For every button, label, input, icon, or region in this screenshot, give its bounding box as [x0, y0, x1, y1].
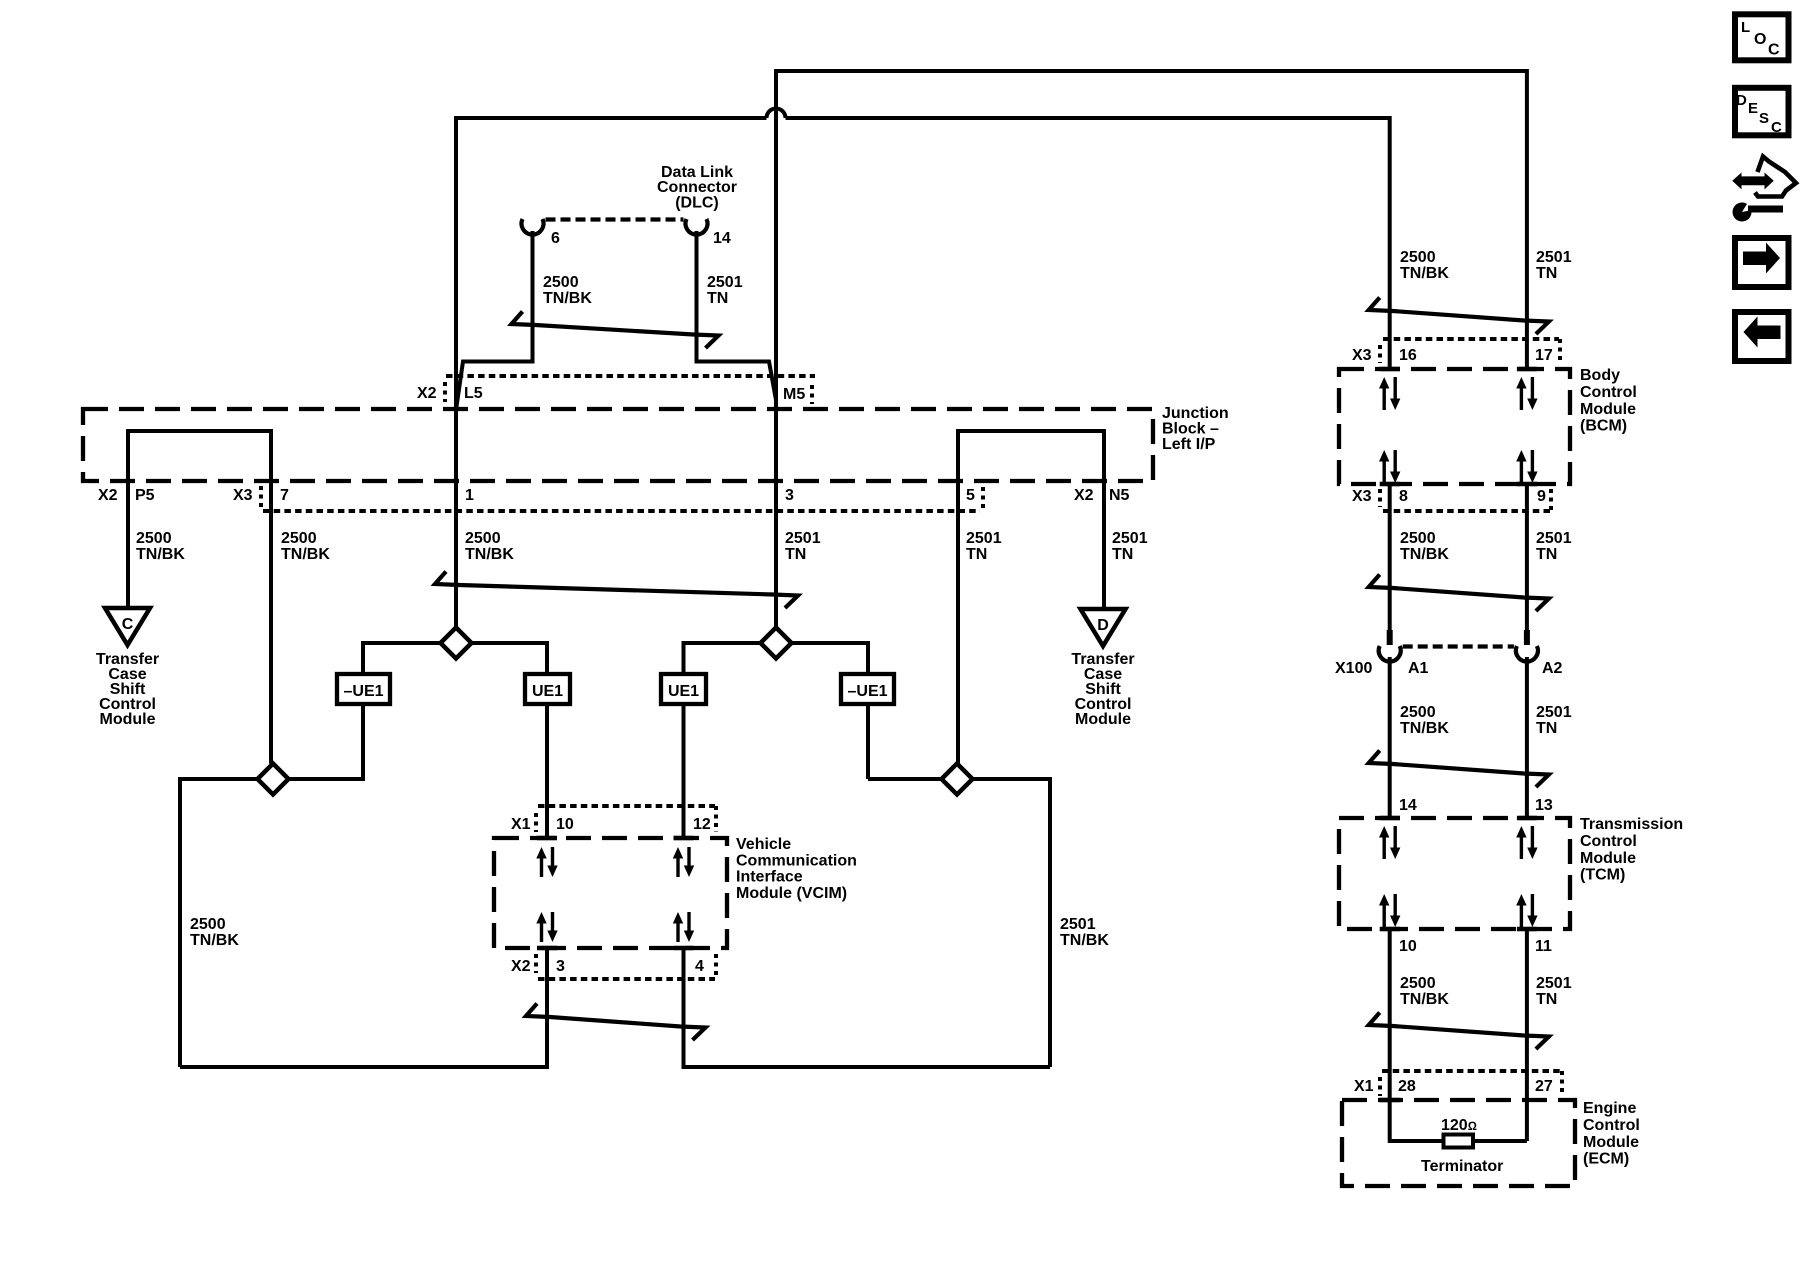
VCIM arrows pin 10	[540, 855, 543, 877]
net label UE1 (right)	[661, 674, 706, 704]
wire BCM pin 17 through pin row	[1525, 339, 1529, 369]
ECM X1 pin row dotted line	[1382, 1069, 1561, 1073]
svg-text:Interface: Interface	[736, 869, 803, 886]
svg-text:–UE1: –UE1	[343, 683, 383, 700]
wire 2501 BCM pin 9 to X100 A2	[1525, 484, 1529, 645]
VCIM X1 separator right	[714, 806, 718, 832]
junction block X2/M5 separator	[810, 385, 814, 404]
DLC pin 14 terminal cup	[686, 219, 708, 235]
svg-text:Control: Control	[1583, 1117, 1640, 1134]
BCM pin 16 T terminal	[1380, 367, 1400, 372]
svg-text:X2: X2	[98, 487, 118, 504]
svg-text:TN/BK: TN/BK	[543, 290, 592, 307]
svg-text:2501: 2501	[707, 274, 743, 291]
svg-text:7: 7	[280, 487, 289, 504]
svg-text:TN: TN	[966, 546, 987, 563]
svg-text:Module: Module	[1583, 1134, 1639, 1151]
hop: line B crosses M5 wire (no connection)	[767, 109, 786, 119]
svg-text:C: C	[1771, 119, 1782, 136]
svg-text:C: C	[1768, 42, 1780, 59]
ECM X1 separator right	[1560, 1071, 1564, 1096]
svg-text:Terminator: Terminator	[1421, 1158, 1503, 1175]
wire 2501 X100 A2 to TCM 13	[1525, 657, 1529, 818]
svg-text:11: 11	[1535, 938, 1552, 955]
svg-text:X100: X100	[1335, 660, 1372, 677]
svg-text:X2: X2	[417, 385, 437, 402]
svg-text:X2: X2	[511, 958, 531, 975]
wire pin 5 down to lower splice	[956, 481, 960, 764]
svg-text:17: 17	[1535, 347, 1553, 364]
VCIM pin 12 T terminal	[674, 836, 694, 841]
twisted pair symbol (above ECM)	[1369, 1013, 1549, 1050]
wire 2500 TCM 10 to ECM 28	[1388, 929, 1392, 1100]
svg-text:Body: Body	[1580, 367, 1620, 384]
wire 2500 TN/BK from DLC pin 6 to junction block L5	[456, 231, 533, 410]
svg-text:14: 14	[713, 230, 731, 247]
svg-text:16: 16	[1399, 347, 1417, 364]
svg-text:2501: 2501	[1112, 530, 1148, 547]
svg-text:10: 10	[556, 816, 574, 833]
junction block X3 separator	[259, 486, 263, 508]
X100 A1 male blade	[1387, 630, 1393, 645]
svg-text:S: S	[1759, 110, 1769, 127]
svg-text:TN/BK: TN/BK	[136, 546, 185, 563]
VCIM X1 separator left	[534, 813, 538, 832]
svg-text:A1: A1	[1408, 660, 1429, 677]
twisted pair symbol (pins 1 and 3)	[435, 572, 798, 609]
wire 2500 TN/BK line B right segment to BCM pin 16	[786, 118, 1390, 339]
VCIM arrows pin 4	[676, 920, 679, 942]
svg-text:2501: 2501	[966, 530, 1002, 547]
svg-text:E: E	[1748, 100, 1758, 117]
svg-text:X1: X1	[511, 816, 531, 833]
TCM pin 13 T terminal	[1517, 816, 1537, 821]
svg-text:O: O	[1754, 31, 1766, 48]
TCM pin 11 T terminal	[1517, 927, 1537, 932]
icon pointer outline stroke	[1755, 157, 1796, 197]
ECM module box	[1342, 1100, 1575, 1186]
TCM arrows 14	[1382, 834, 1385, 859]
svg-text:9: 9	[1537, 488, 1546, 505]
BCM pin 8 T terminal	[1380, 482, 1400, 487]
svg-text:P5: P5	[135, 487, 155, 504]
wire -UE1(left) down to splice arm	[361, 704, 365, 781]
DLC pin 6 terminal cup	[522, 219, 544, 235]
svg-text:10: 10	[1399, 938, 1417, 955]
svg-text:Engine: Engine	[1583, 1100, 1636, 1117]
ECM X1 separator left	[1378, 1077, 1382, 1096]
wire splice to -UE1 (left)	[363, 643, 441, 674]
svg-text:D: D	[1097, 617, 1109, 634]
BCM arrows 8	[1382, 458, 1385, 483]
twisted pair symbol (above TCM)	[1369, 751, 1549, 788]
wire UE1(right) to VCIM pin 12	[682, 704, 686, 838]
svg-text:Module (VCIM): Module (VCIM)	[736, 885, 847, 902]
BCM X3 bottom pin row dotted line	[1383, 509, 1550, 513]
icon LOC box	[1735, 14, 1789, 60]
svg-text:D: D	[1736, 92, 1747, 109]
icon pointer double arrow	[1733, 174, 1773, 189]
BCM X3 bottom separator left	[1378, 489, 1382, 507]
svg-text:TN/BK: TN/BK	[281, 546, 330, 563]
wire terminator resistor to ECM 27	[1473, 1139, 1527, 1143]
svg-text:TN: TN	[1536, 546, 1557, 563]
svg-text:M5: M5	[783, 386, 805, 403]
BCM X3 top separator left	[1378, 345, 1382, 363]
svg-text:(TCM): (TCM)	[1580, 867, 1625, 884]
svg-text:Transmission: Transmission	[1580, 816, 1683, 833]
BCM X3 top separator right	[1558, 339, 1562, 363]
TCM arrows 10	[1382, 902, 1385, 927]
BCM module box	[1339, 369, 1570, 484]
VCIM X2 separator right	[714, 954, 718, 979]
svg-text:X2: X2	[1074, 487, 1094, 504]
icon back arrow	[1744, 317, 1781, 348]
svg-text:TN/BK: TN/BK	[465, 546, 514, 563]
svg-text:X1: X1	[1354, 1078, 1374, 1095]
svg-text:2501: 2501	[1536, 975, 1572, 992]
svg-text:–UE1: –UE1	[847, 683, 887, 700]
svg-text:TN: TN	[707, 290, 728, 307]
wire 2501 TN junction N5 to triangle D	[1102, 431, 1106, 609]
svg-text:12: 12	[693, 816, 711, 833]
splice diamond (2501, pin 3)	[761, 628, 792, 659]
svg-text:3: 3	[785, 487, 794, 504]
svg-text:120Ω: 120Ω	[1441, 1117, 1477, 1134]
svg-text:UE1: UE1	[532, 683, 563, 700]
junction block bottom pin row dotted line	[263, 509, 980, 513]
wire 2500 TN/BK junction P5 to triangle C	[126, 431, 130, 608]
svg-text:2501: 2501	[1060, 916, 1096, 933]
wire 2501 TN from DLC pin 14 to junction block M5	[697, 231, 777, 400]
svg-text:13: 13	[1535, 797, 1553, 814]
svg-text:TN/BK: TN/BK	[1400, 720, 1449, 737]
svg-text:2500: 2500	[543, 274, 579, 291]
junction block top pin row X2 dotted line	[446, 374, 815, 378]
svg-text:TN/BK: TN/BK	[1060, 932, 1109, 949]
VCIM module box	[494, 838, 727, 948]
svg-text:6: 6	[551, 230, 560, 247]
svg-text:2501: 2501	[785, 530, 821, 547]
svg-text:2501: 2501	[1536, 249, 1572, 266]
svg-text:Junction: Junction	[1162, 405, 1229, 422]
svg-text:TN: TN	[1536, 720, 1557, 737]
svg-text:X3: X3	[233, 487, 253, 504]
svg-text:14: 14	[1399, 797, 1417, 814]
BCM arrows 17	[1520, 385, 1523, 410]
svg-text:TN/BK: TN/BK	[1400, 991, 1449, 1008]
wire 2501 TCM 11 to ECM 27	[1525, 929, 1529, 1141]
TCM pin 10 T terminal	[1380, 927, 1400, 932]
svg-text:TN/BK: TN/BK	[190, 932, 239, 949]
svg-text:28: 28	[1398, 1078, 1416, 1095]
svg-text:Module: Module	[1580, 850, 1636, 867]
svg-text:2500: 2500	[190, 916, 226, 933]
svg-text:2500: 2500	[1400, 704, 1436, 721]
svg-text:Module: Module	[100, 711, 156, 728]
svg-text:(ECM): (ECM)	[1583, 1151, 1629, 1168]
svg-text:2500: 2500	[1400, 249, 1436, 266]
BCM arrows 16	[1382, 385, 1385, 410]
wire 2500 TN/BK top run: L5 vertical up to line B across to BCM pin 16 (left segment)	[456, 118, 767, 628]
net label UE1 (left)	[525, 674, 570, 704]
VCIM X2 separator left	[534, 954, 538, 973]
terminator resistor 120 ohm	[1444, 1135, 1474, 1148]
VCIM arrows pin 3	[540, 920, 543, 942]
VCIM pin 3 T terminal	[537, 946, 557, 951]
wire lower splice right arm (-UE1 join)	[289, 777, 364, 781]
wire 2500 BCM pin 8 to X100 A1	[1388, 484, 1392, 645]
junction block pin 5 separator	[981, 487, 985, 510]
icon back arrow box	[1735, 312, 1789, 361]
svg-text:X3: X3	[1352, 347, 1372, 364]
net label -UE1 (right)	[841, 674, 894, 704]
twisted pair symbol (below BCM)	[1369, 575, 1549, 612]
wire -UE1(right) down to splice	[866, 704, 870, 779]
icon forward arrow	[1743, 243, 1780, 274]
X100 A1 terminal cup	[1379, 646, 1401, 662]
svg-text:TN: TN	[1536, 991, 1557, 1008]
svg-text:A2: A2	[1542, 660, 1563, 677]
wire 2501 TN/BK bottom rail to VCIM pin 4	[684, 948, 1051, 1067]
off-page triangle D	[1081, 609, 1126, 646]
X100 A2 terminal cup	[1516, 646, 1538, 662]
BCM pin 9 T terminal	[1517, 482, 1537, 487]
VCIM X2 pin row dotted line	[538, 977, 715, 981]
svg-text:Vehicle: Vehicle	[736, 836, 791, 853]
svg-text:2500: 2500	[281, 530, 317, 547]
svg-text:2500: 2500	[136, 530, 172, 547]
svg-text:Module: Module	[1580, 401, 1636, 418]
wire splice to -UE1 (right)	[792, 643, 869, 674]
TCM arrows 13	[1520, 834, 1523, 859]
icon DESC box	[1735, 88, 1789, 136]
junction block internal wire 5 to N5	[958, 431, 1104, 481]
BCM X3 top pin row dotted line	[1383, 337, 1559, 341]
off-page triangle C	[105, 608, 150, 645]
ECM pin 28 T terminal	[1380, 1098, 1400, 1103]
svg-text:Control: Control	[1580, 384, 1637, 401]
X100 connector dashed line	[1403, 644, 1514, 648]
twisted pair symbol (DLC wires)	[512, 312, 719, 349]
TCM arrows 11	[1520, 902, 1523, 927]
junction block - Left I/P module box	[83, 409, 1153, 481]
wire lower splice right arm to rail	[973, 779, 1051, 1067]
svg-text:4: 4	[695, 958, 704, 975]
svg-text:C: C	[122, 616, 134, 633]
icon forward arrow box	[1735, 238, 1789, 287]
svg-text:Communication: Communication	[736, 852, 857, 869]
wire splice to UE1 (right pair)	[684, 643, 761, 674]
TCM pin 14 T terminal	[1380, 816, 1400, 821]
svg-text:8: 8	[1399, 488, 1408, 505]
svg-text:Control: Control	[1580, 833, 1637, 850]
svg-text:N5: N5	[1109, 487, 1130, 504]
svg-text:5: 5	[966, 487, 975, 504]
wire lower splice left arm (-UE1 right join)	[868, 777, 942, 781]
svg-text:TN: TN	[1112, 546, 1133, 563]
splice diamond (2501 lower)	[942, 764, 973, 795]
net label -UE1 (left)	[337, 674, 390, 704]
DLC connector dashed line	[546, 217, 684, 221]
svg-text:3: 3	[556, 958, 565, 975]
wire 2501 TN top run: M5 vertical up to line A across to BCM pin 17	[776, 71, 1527, 628]
wire lower splice left arm to rail	[180, 779, 258, 1067]
wire 2500 TN/BK bottom rail to VCIM pin 3	[180, 948, 547, 1067]
svg-text:2500: 2500	[1400, 530, 1436, 547]
VCIM X1 pin row dotted line	[538, 804, 715, 808]
svg-text:1: 1	[465, 487, 474, 504]
svg-text:TN/BK: TN/BK	[1400, 546, 1449, 563]
X100 A2 male blade	[1524, 630, 1530, 645]
junction block internal wire P5 to 7	[128, 431, 271, 481]
wire splice to UE1 (left pair)	[472, 643, 548, 674]
BCM pin 17 T terminal	[1517, 367, 1537, 372]
icon wrench	[1733, 203, 1752, 222]
splice diamond (2500 lower)	[258, 764, 289, 795]
wire UE1 to VCIM pin 10	[545, 704, 549, 838]
svg-text:Left I/P: Left I/P	[1162, 436, 1216, 453]
VCIM pin 4 T terminal	[674, 946, 694, 951]
splice diamond (2500, pin 1)	[441, 628, 472, 659]
twisted pair symbol (BCM top)	[1369, 298, 1549, 335]
svg-text:(BCM): (BCM)	[1580, 418, 1627, 435]
BCM arrows 9	[1520, 458, 1523, 483]
svg-text:2500: 2500	[1400, 975, 1436, 992]
svg-text:27: 27	[1535, 1078, 1553, 1095]
svg-text:(DLC): (DLC)	[675, 194, 719, 211]
svg-text:L5: L5	[464, 385, 483, 402]
wire ECM 28 to terminator resistor	[1390, 1100, 1444, 1141]
svg-text:TN/BK: TN/BK	[1400, 265, 1449, 282]
svg-text:Module: Module	[1075, 711, 1131, 728]
svg-text:TN: TN	[785, 546, 806, 563]
svg-text:2500: 2500	[465, 530, 501, 547]
svg-text:UE1: UE1	[668, 683, 699, 700]
svg-text:X3: X3	[1352, 488, 1372, 505]
BCM X3 bottom separator right	[1549, 489, 1553, 511]
wire BCM pin 16 through pin row	[1388, 339, 1392, 369]
wire 2500 X100 A1 to TCM 14	[1388, 657, 1392, 818]
TCM module box	[1339, 818, 1570, 929]
svg-text:2501: 2501	[1536, 704, 1572, 721]
svg-text:TN: TN	[1536, 265, 1557, 282]
twisted pair symbol (VCIM lower wires)	[526, 1004, 706, 1041]
wire pin 7 down to lower splice	[269, 481, 273, 764]
VCIM pin 10 T terminal	[537, 836, 557, 841]
VCIM arrows pin 12	[676, 855, 679, 877]
svg-text:L: L	[1741, 19, 1750, 36]
svg-text:Block –: Block –	[1162, 421, 1219, 438]
svg-text:2501: 2501	[1536, 530, 1572, 547]
junction block X2 top row separator	[443, 382, 447, 402]
